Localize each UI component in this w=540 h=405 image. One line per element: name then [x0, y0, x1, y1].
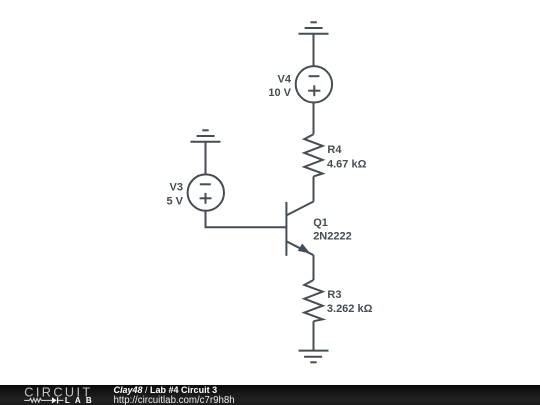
svg-text:4.67 kΩ: 4.67 kΩ [327, 158, 367, 170]
svg-text:2N2222: 2N2222 [313, 231, 352, 243]
svg-text:R3: R3 [327, 289, 341, 301]
svg-text:R4: R4 [327, 144, 342, 156]
svg-text:V3: V3 [170, 182, 183, 194]
svg-text:Clay48 / Lab #4 Circuit 3: Clay48 / Lab #4 Circuit 3 [114, 385, 218, 395]
svg-text:10 V: 10 V [268, 87, 291, 99]
svg-text:5 V: 5 V [166, 195, 183, 207]
svg-text:V4: V4 [278, 73, 292, 85]
svg-text:LAB: LAB [65, 396, 97, 405]
svg-text:Q1: Q1 [313, 217, 328, 229]
svg-text:3.262 kΩ: 3.262 kΩ [327, 303, 373, 315]
svg-text:http://circuitlab.com/c7r9h8h: http://circuitlab.com/c7r9h8h [114, 395, 235, 405]
